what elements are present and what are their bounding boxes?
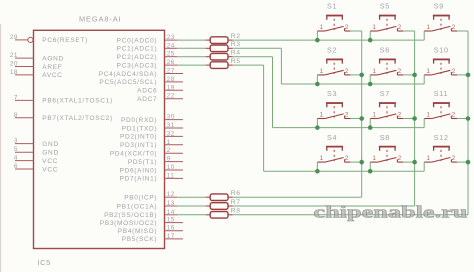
- svg-text:PC2(ADC2): PC2(ADC2): [117, 54, 158, 61]
- svg-text:R3: R3: [231, 41, 241, 48]
- svg-text:AREF: AREF: [42, 64, 62, 71]
- svg-text:PD0(RXD): PD0(RXD): [121, 117, 157, 124]
- svg-text:11: 11: [167, 172, 174, 179]
- svg-text:1: 1: [167, 139, 171, 146]
- svg-text:PB5(SCK): PB5(SCK): [122, 236, 158, 243]
- svg-text:17: 17: [167, 233, 175, 240]
- svg-text:2: 2: [398, 24, 402, 31]
- svg-text:4: 4: [14, 155, 18, 162]
- svg-text:1: 1: [372, 112, 376, 119]
- svg-text:16: 16: [167, 225, 175, 232]
- svg-text:2: 2: [452, 112, 456, 119]
- svg-text:PC6(RESET): PC6(RESET): [42, 37, 88, 44]
- svg-text:AVCC: AVCC: [42, 72, 62, 79]
- svg-text:14: 14: [167, 209, 175, 216]
- svg-text:ADC7: ADC7: [137, 96, 157, 103]
- svg-text:2: 2: [345, 68, 349, 75]
- svg-text:1: 1: [320, 155, 324, 162]
- svg-text:31: 31: [167, 122, 175, 129]
- svg-text:chipenable.ru: chipenable.ru: [313, 202, 467, 221]
- svg-text:R5: R5: [231, 58, 241, 65]
- svg-text:2: 2: [398, 155, 402, 162]
- svg-text:GND: GND: [42, 150, 59, 157]
- svg-text:32: 32: [167, 130, 175, 137]
- svg-text:S6: S6: [380, 46, 390, 55]
- svg-text:PC4(ADC4/SDA): PC4(ADC4/SDA): [99, 71, 158, 78]
- svg-text:1: 1: [426, 155, 430, 162]
- svg-text:30: 30: [167, 114, 175, 121]
- svg-text:1: 1: [426, 68, 430, 75]
- svg-text:18: 18: [10, 69, 18, 76]
- svg-text:27: 27: [167, 68, 175, 75]
- svg-text:12: 12: [167, 191, 175, 198]
- svg-text:28: 28: [167, 76, 175, 83]
- svg-text:21: 21: [10, 52, 18, 59]
- svg-text:R2: R2: [231, 33, 241, 40]
- svg-text:R7: R7: [231, 199, 241, 206]
- svg-text:S2: S2: [327, 46, 337, 55]
- svg-text:PB0(ICP): PB0(ICP): [124, 195, 157, 202]
- svg-text:6: 6: [14, 163, 18, 170]
- svg-text:7: 7: [14, 94, 18, 101]
- svg-text:20: 20: [10, 61, 18, 68]
- svg-text:PB4(MISO): PB4(MISO): [118, 228, 158, 235]
- svg-text:S5: S5: [380, 2, 390, 11]
- svg-text:S1: S1: [327, 2, 337, 11]
- svg-text:S11: S11: [434, 89, 448, 98]
- svg-text:10: 10: [167, 164, 175, 171]
- svg-text:19: 19: [167, 84, 175, 91]
- svg-text:2: 2: [398, 112, 402, 119]
- svg-text:1: 1: [426, 112, 430, 119]
- svg-text:8: 8: [14, 112, 18, 119]
- svg-text:2: 2: [345, 24, 349, 31]
- svg-text:S7: S7: [380, 89, 390, 98]
- svg-text:25: 25: [167, 51, 175, 58]
- svg-text:PD4(XCK/T0): PD4(XCK/T0): [110, 151, 157, 158]
- svg-text:PC5(ADC5/SCL): PC5(ADC5/SCL): [99, 79, 157, 86]
- svg-text:S3: S3: [327, 89, 337, 98]
- svg-text:PD3(INT1): PD3(INT1): [120, 142, 157, 149]
- svg-text:PD6(AIN0): PD6(AIN0): [120, 167, 158, 174]
- svg-text:1: 1: [320, 68, 324, 75]
- svg-text:2: 2: [167, 147, 171, 154]
- svg-text:5: 5: [14, 146, 18, 153]
- svg-text:PC0(ADC0): PC0(ADC0): [117, 37, 158, 44]
- svg-text:2: 2: [345, 155, 349, 162]
- svg-text:26: 26: [167, 59, 175, 66]
- svg-text:PD7(AIN1): PD7(AIN1): [120, 176, 158, 183]
- svg-text:S10: S10: [434, 46, 449, 55]
- svg-text:1: 1: [320, 24, 324, 31]
- svg-text:R4: R4: [231, 50, 241, 57]
- svg-text:24: 24: [167, 42, 175, 49]
- svg-text:9: 9: [167, 156, 171, 163]
- svg-text:MEGA8-AI: MEGA8-AI: [79, 14, 122, 23]
- svg-text:PB2(SS/OC1B): PB2(SS/OC1B): [104, 212, 157, 219]
- svg-text:2: 2: [452, 155, 456, 162]
- svg-text:S4: S4: [327, 133, 337, 142]
- svg-text:GND: GND: [42, 141, 59, 148]
- svg-text:S12: S12: [434, 133, 449, 142]
- svg-text:1: 1: [320, 112, 324, 119]
- svg-text:R8: R8: [231, 208, 241, 215]
- svg-text:AGND: AGND: [42, 55, 64, 62]
- svg-text:29: 29: [10, 34, 18, 41]
- svg-text:1: 1: [372, 155, 376, 162]
- svg-text:2: 2: [345, 112, 349, 119]
- svg-text:ADC6: ADC6: [137, 88, 157, 95]
- svg-text:2: 2: [452, 24, 456, 31]
- svg-text:13: 13: [167, 200, 175, 207]
- svg-text:VCC: VCC: [42, 166, 58, 173]
- svg-text:23: 23: [167, 34, 175, 41]
- svg-text:PD5(T1): PD5(T1): [128, 159, 157, 166]
- svg-text:1: 1: [372, 68, 376, 75]
- svg-text:PC3(ADC3): PC3(ADC3): [117, 62, 158, 69]
- svg-text:1: 1: [372, 24, 376, 31]
- svg-text:PB7(XTAL2/TOSC2): PB7(XTAL2/TOSC2): [42, 115, 113, 122]
- svg-text:IC5: IC5: [38, 258, 51, 267]
- svg-text:PD1(TXD): PD1(TXD): [122, 125, 158, 132]
- svg-text:22: 22: [167, 93, 175, 100]
- svg-text:2: 2: [452, 68, 456, 75]
- svg-text:1: 1: [426, 24, 430, 31]
- svg-text:15: 15: [167, 217, 175, 224]
- svg-text:2: 2: [398, 68, 402, 75]
- svg-text:3: 3: [14, 138, 18, 145]
- svg-text:PB6(XTAL1/TOSC1): PB6(XTAL1/TOSC1): [42, 98, 113, 105]
- svg-text:PD2(INT0): PD2(INT0): [120, 134, 157, 141]
- svg-text:PC1(ADC1): PC1(ADC1): [117, 46, 158, 53]
- svg-text:VCC: VCC: [42, 158, 58, 165]
- svg-text:R6: R6: [231, 190, 241, 197]
- svg-text:PB3(MOSI/OC2): PB3(MOSI/OC2): [100, 220, 158, 227]
- svg-text:S8: S8: [380, 133, 390, 142]
- svg-text:PB1(OC1A): PB1(OC1A): [117, 203, 158, 210]
- svg-text:S9: S9: [434, 2, 444, 11]
